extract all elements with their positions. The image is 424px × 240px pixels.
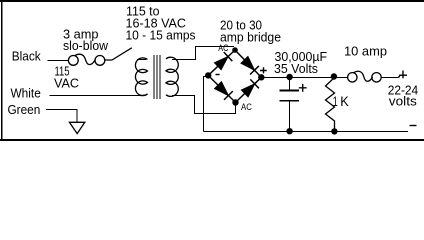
svg-text:35 Volts: 35 Volts	[274, 61, 318, 76]
ground symbol	[69, 122, 84, 133]
fuse F2 right circle	[372, 73, 381, 82]
capacitor C1 plates	[280, 90, 300, 92]
svg-text:Black: Black	[12, 49, 41, 64]
junction dot capacitor top	[286, 74, 292, 80]
resistor R1 zigzag	[326, 78, 335, 129]
wire: secondary top to bridge AC top	[172, 47, 234, 60]
wire: Green lead	[46, 110, 77, 123]
fuse F1 3 amp slo-blow: left circle	[68, 56, 78, 66]
svg-text:AC: AC	[218, 43, 228, 54]
transformer T1 core	[154, 55, 160, 99]
svg-text:volts: volts	[389, 93, 418, 108]
bridge diamond edges	[208, 50, 261, 103]
junction dot capacitor bottom	[286, 128, 292, 134]
svg-text:VAC: VAC	[54, 75, 79, 90]
svg-text:slo-blow: slo-blow	[63, 38, 109, 53]
wire: negative rail	[204, 131, 409, 133]
wire: Black lead to fuse F1	[48, 60, 69, 62]
svg-text:White: White	[11, 85, 41, 100]
junction dot bridge top AC	[232, 47, 238, 53]
switch SW1 blade (open)	[105, 48, 132, 60]
wire: fuse F2 to + output	[381, 77, 398, 79]
capacitor C1 bottom lead	[289, 102, 291, 130]
junction dot resistor top	[331, 73, 337, 79]
junction dot resistor bottom	[331, 128, 337, 134]
fuse F2 10 amp: left circle	[348, 73, 357, 82]
svg-text:amp bridge: amp bridge	[220, 29, 281, 44]
svg-text:AC: AC	[241, 102, 252, 113]
wire: switch to transformer primary	[137, 59, 146, 61]
capacitor C1 top lead	[289, 79, 291, 90]
svg-text:10 - 15 amps: 10 - 15 amps	[126, 27, 196, 42]
diode D3 lower-left	[215, 82, 229, 96]
wire: bridge plus to positive rail	[263, 77, 348, 79]
plus symbol at output	[399, 71, 408, 79]
plus symbol at bridge + vertex	[260, 67, 267, 73]
minus symbol at bridge - vertex	[216, 74, 220, 76]
junction dot bridge right plus	[258, 74, 264, 80]
border frame	[0, 0, 424, 140]
svg-text:10 amp: 10 amp	[344, 43, 387, 58]
diode D4 lower-right	[241, 84, 254, 97]
primary bottom curve to White wire	[140, 94, 147, 96]
diode D2 upper-right	[241, 57, 255, 71]
transformer T1 secondary winding	[166, 57, 178, 96]
fuse F1 right circle	[95, 56, 105, 66]
wire: bridge minus down to negative rail	[204, 77, 209, 132]
wire: White lead to primary bottom	[50, 95, 141, 97]
svg-text:Green: Green	[8, 102, 41, 117]
junction dot bridge left minus	[205, 72, 211, 78]
fuse F1 squiggle	[75, 54, 95, 64]
minus symbol at output	[410, 125, 417, 127]
fuse F2 squiggle	[354, 71, 373, 81]
junction dot bridge bottom AC	[232, 99, 238, 105]
plus symbol at capacitor	[299, 84, 307, 92]
wire: secondary bottom to bridge AC bottom	[172, 96, 236, 114]
svg-text:K: K	[340, 94, 349, 109]
diode D1 upper-left	[215, 57, 229, 70]
svg-text:1: 1	[333, 94, 338, 109]
transformer T1 primary winding	[135, 58, 147, 96]
